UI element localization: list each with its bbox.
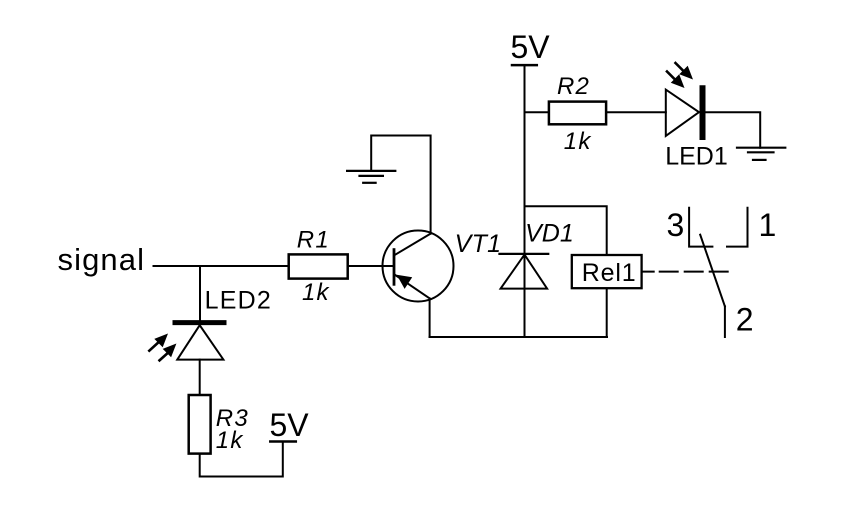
- LED1 light arrow 2: [667, 72, 685, 89]
- svg-text:LED2: LED2: [205, 287, 272, 315]
- svg-text:VT1: VT1: [455, 230, 502, 258]
- power 5V top bar: [512, 64, 537, 67]
- wire 5V to R2: [525, 111, 548, 113]
- svg-text:LED1: LED1: [665, 142, 728, 170]
- svg-text:2: 2: [736, 302, 754, 338]
- wire R3 bottom: [200, 442, 283, 477]
- switch contact 1 bracket: [727, 208, 748, 247]
- wire R2 to LED1: [607, 111, 666, 113]
- wire branch to Rel1: [525, 206, 607, 254]
- resistor R2: [549, 102, 606, 125]
- svg-text:Rel1: Rel1: [582, 259, 637, 287]
- ground left: [347, 171, 395, 183]
- svg-text:signal: signal: [58, 242, 146, 277]
- wire LED1 to ground: [706, 112, 761, 148]
- switch contact 3 bracket: [689, 208, 712, 247]
- wire emitter down: [429, 298, 431, 337]
- svg-text:1: 1: [759, 207, 777, 243]
- resistor R1: [289, 254, 348, 278]
- transistor VT1 emitter arrow: [397, 275, 413, 289]
- svg-text:R1: R1: [297, 227, 330, 254]
- power 5V bottom bar: [270, 440, 296, 443]
- wire Rel1 bottom: [606, 289, 608, 337]
- svg-text:1k: 1k: [216, 427, 245, 454]
- transistor VT1 circle: [383, 231, 454, 302]
- wire 5V main vertical: [524, 65, 526, 337]
- transistor VT1 collector line: [395, 234, 431, 255]
- transistor VT1 base bar: [393, 250, 396, 285]
- switch moving arm: [700, 235, 725, 307]
- LED1 triangle: [666, 90, 699, 136]
- diode VD1 cathode bar: [500, 253, 549, 255]
- wire bottom rail: [430, 336, 607, 338]
- LED2 light arrow 2: [160, 344, 177, 361]
- diode VD1 triangle: [501, 255, 547, 289]
- svg-text:1k: 1k: [564, 128, 593, 155]
- relay Rel1 box: [572, 255, 642, 288]
- wire junction to LED2: [199, 266, 201, 321]
- LED2 cathode bar: [175, 320, 224, 325]
- svg-text:1k: 1k: [302, 279, 331, 306]
- svg-text:3: 3: [667, 207, 685, 243]
- wire LED2 to R3: [199, 360, 201, 394]
- LED2 triangle: [177, 325, 223, 359]
- ground right: [737, 148, 785, 160]
- transistor VT1 emitter line: [395, 275, 430, 299]
- svg-text:5V: 5V: [511, 29, 551, 65]
- wire contact 2 lead: [724, 306, 726, 337]
- dashed actuation link: [643, 271, 729, 273]
- svg-text:5V: 5V: [270, 407, 310, 443]
- LED1 light arrow 1: [676, 63, 694, 80]
- svg-text:R2: R2: [557, 73, 590, 100]
- LED1 cathode bar: [700, 88, 706, 137]
- wire signal input: [154, 265, 287, 267]
- svg-text:VD1: VD1: [525, 219, 574, 247]
- wire R1 to base: [349, 265, 393, 267]
- wire collector up and to ground: [371, 136, 430, 234]
- resistor R3: [189, 395, 211, 454]
- LED2 light arrow 1: [149, 334, 168, 351]
